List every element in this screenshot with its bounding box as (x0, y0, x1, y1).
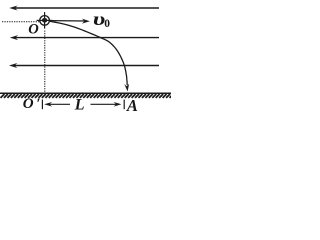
svg-text:0: 0 (104, 18, 110, 30)
svg-text:′: ′ (36, 96, 40, 112)
svg-text:O: O (28, 22, 39, 38)
svg-text:O: O (23, 96, 34, 112)
svg-text:L: L (74, 97, 85, 114)
svg-text:A: A (126, 96, 138, 114)
